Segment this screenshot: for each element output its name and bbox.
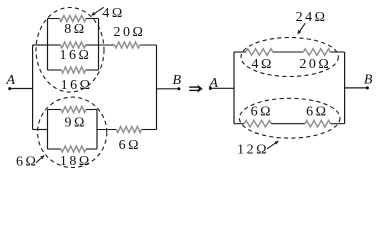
svg-text:B: B: [364, 73, 373, 88]
svg-text:8Ω: 8Ω: [64, 22, 86, 37]
implies arrow symbol: [189, 85, 203, 93]
wire to node B (left circuit): [157, 88, 179, 90]
wire from node A to left junction: [10, 88, 33, 90]
wire top branch: junction to box: [33, 44, 48, 46]
dashed ellipse around 9Ω/18Ω group: [38, 97, 107, 167]
dashed ellipse around 8Ω/16Ω/16Ω group: [36, 8, 104, 93]
svg-text:6Ω: 6Ω: [306, 105, 328, 120]
svg-text:B: B: [173, 73, 182, 88]
wire left vertical bus (right circuit): [233, 52, 235, 124]
svg-text:A: A: [5, 73, 15, 88]
svg-text:6Ω: 6Ω: [251, 105, 273, 120]
wire right vertical bus (right circuit): [344, 52, 346, 124]
svg-text:20Ω: 20Ω: [113, 25, 145, 40]
wire from node A to left bus (right circuit): [210, 87, 234, 89]
node B (left circuit): [177, 87, 180, 90]
resistor 16Ω (middle): [48, 42, 99, 48]
dashed ellipse around 4Ω+20Ω series: [241, 38, 338, 77]
resistor 6Ω second (right circuit): [271, 120, 344, 127]
resistor 16Ω (lower): [48, 67, 99, 73]
wire left vertical bus: [32, 45, 34, 130]
wire bottom branch: junction to box: [33, 129, 48, 131]
node B (right circuit): [366, 86, 369, 89]
resistor 6Ω first (right circuit): [234, 120, 271, 127]
wire parallel-box right edge (bottom group): [96, 110, 98, 150]
arrow from 24Ω label to series group: [300, 23, 305, 31]
dashed ellipse around 6Ω+6Ω series: [239, 98, 340, 138]
resistor 18Ω: [48, 146, 98, 152]
resistor 20Ω (right circuit): [273, 49, 345, 56]
svg-text:6Ω: 6Ω: [16, 155, 38, 170]
wire parallel-box left edge (top group): [47, 19, 49, 71]
svg-text:A: A: [208, 76, 218, 91]
arrow from 6Ω label to group: [36, 158, 41, 163]
wire parallel-box left edge (bottom group): [47, 110, 49, 150]
node A (right circuit): [209, 87, 212, 90]
resistor 20Ω (left circuit): [99, 42, 157, 48]
arrow from 12Ω label to series group: [267, 143, 275, 149]
svg-text:16Ω: 16Ω: [60, 48, 92, 63]
svg-text:24Ω: 24Ω: [296, 10, 328, 25]
svg-text:6Ω: 6Ω: [119, 138, 141, 153]
wire parallel-box right edge (top group): [98, 19, 100, 71]
svg-text:4Ω: 4Ω: [251, 57, 273, 72]
wire to node B (right circuit): [345, 87, 368, 89]
wire right vertical bus (left circuit): [156, 45, 158, 130]
arrow from 4Ω label to group: [95, 7, 104, 13]
svg-text:9Ω: 9Ω: [64, 116, 86, 131]
svg-text:4Ω: 4Ω: [102, 6, 124, 21]
resistor 4Ω (right circuit): [234, 49, 273, 56]
resistor 9Ω: [48, 107, 98, 113]
node A (left circuit): [8, 87, 11, 90]
svg-text:12Ω: 12Ω: [237, 143, 269, 158]
resistor 8Ω: [48, 16, 99, 22]
resistor 6Ω series (left circuit): [97, 127, 157, 133]
